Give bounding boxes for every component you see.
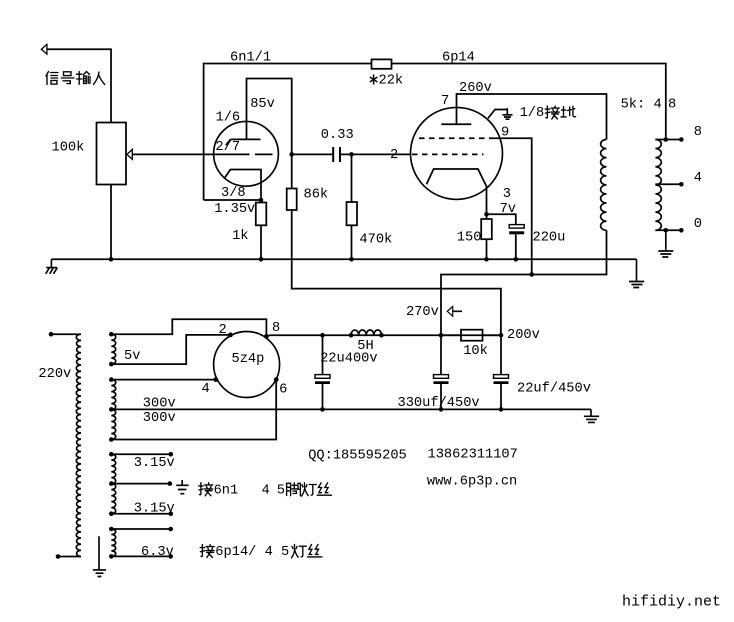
- svg-text:260v: 260v: [459, 81, 492, 96]
- svg-text:5z4p: 5z4p: [232, 352, 265, 367]
- power transformer heater winding 3.15v a: [111, 454, 115, 483]
- node 22u400v top: [320, 333, 325, 338]
- wire 6.3v bottom tap: [109, 554, 114, 559]
- wire 5v top tap to pin 8: [109, 332, 114, 337]
- capacitor 22u400v: [322, 335, 324, 374]
- svg-text:5: 5: [277, 483, 285, 498]
- svg-text:300v: 300v: [143, 411, 176, 426]
- svg-text:470k: 470k: [359, 233, 392, 248]
- svg-text:150: 150: [457, 230, 482, 245]
- wire feedback loop left vertical and bottom: [204, 64, 666, 201]
- capacitor 220u cathode bypass: [487, 214, 516, 224]
- resistor 150 cathode: [486, 214, 488, 219]
- label 1/8接地: [520, 106, 576, 121]
- pin 4 node and wire to hv top: [213, 377, 218, 382]
- ground chassis symbol left: [46, 259, 58, 274]
- wire V1 plate to 86k/0.33 junction: [247, 79, 292, 189]
- node 270v junction: [439, 333, 444, 338]
- node 150/ground: [484, 257, 489, 262]
- power transformer primary terminal bottom: [56, 554, 61, 559]
- svg-text:6n1/1: 6n1/1: [230, 51, 271, 66]
- svg-text:0: 0: [694, 217, 702, 232]
- output transformer secondary coil: [655, 140, 661, 231]
- wire heater 3.15v b bottom tap: [109, 511, 114, 516]
- svg-text:22k: 22k: [379, 74, 404, 89]
- tube V1 plate: [226, 139, 261, 145]
- resistor *22k (feedback): [372, 59, 392, 68]
- power transformer primary terminal top: [49, 332, 54, 337]
- power transformer hv winding 300-0-300: [111, 380, 115, 440]
- svg-text:10k: 10k: [463, 344, 488, 359]
- svg-text:3.15v: 3.15v: [134, 501, 175, 516]
- svg-text:2/7: 2/7: [215, 140, 240, 155]
- resistor 86k (V1 plate load): [287, 189, 297, 211]
- wire pot bottom to ground bus: [110, 185, 112, 260]
- node plate/86k/0.33 junction: [289, 152, 294, 157]
- wire screen grid to B+ line: [494, 138, 532, 274]
- svg-text:2: 2: [390, 148, 398, 163]
- wire 86k bottom to 200v node: [292, 210, 501, 335]
- svg-text:22uf/450v: 22uf/450v: [517, 381, 591, 396]
- node 470k/ground: [349, 257, 354, 262]
- svg-text:4: 4: [202, 382, 210, 397]
- ground symbol transformer core: [93, 536, 106, 576]
- svg-text:85v: 85v: [250, 97, 275, 112]
- svg-text:1.35v: 1.35v: [214, 202, 255, 217]
- svg-text:8: 8: [694, 125, 702, 140]
- input terminal arrow: [41, 44, 47, 54]
- tube V2 screen grid (dashed): [419, 137, 494, 139]
- label 信号输入 (signal input): [46, 72, 105, 85]
- svg-text:6p14/ 4 5: 6p14/ 4 5: [215, 545, 289, 560]
- svg-text:2: 2: [219, 323, 227, 338]
- node 1k/ground: [259, 257, 264, 262]
- wire 6.3v top tap: [109, 527, 114, 532]
- svg-text:4: 4: [262, 483, 270, 498]
- ground symbol secondary 0 tap: [658, 230, 673, 257]
- wire 5v bottom tap to pin 2: [109, 362, 114, 367]
- svg-text:0.33: 0.33: [321, 128, 354, 143]
- svg-text:6: 6: [279, 382, 287, 397]
- svg-text:3/8: 3/8: [221, 186, 246, 201]
- svg-text:1k: 1k: [232, 229, 248, 244]
- wire B+ rail pin8 to 200v: [266, 335, 501, 336]
- tube V2 control grid (dashed): [412, 153, 484, 155]
- node screen/B+ junction: [529, 272, 534, 277]
- label 接6n1 4 5脚灯丝: [199, 483, 332, 499]
- wire heater center tap: [109, 481, 114, 486]
- pin 2 node: [228, 333, 233, 338]
- svg-text:QQ:185595205: QQ:185595205: [308, 448, 407, 463]
- svg-text:9: 9: [501, 126, 509, 141]
- capacitor 330uf/450v: [440, 335, 442, 374]
- node pot/ground junction: [109, 257, 114, 262]
- svg-text:220u: 220u: [533, 230, 566, 245]
- power transformer heater winding 6.3v: [111, 529, 115, 556]
- tube V2 plate: [441, 123, 471, 125]
- ground symbol heater center tap: [176, 480, 188, 494]
- svg-text:5k: 4: 5k: 4: [621, 98, 662, 113]
- svg-text:22u400v: 22u400v: [320, 351, 378, 366]
- svg-text:8: 8: [668, 98, 676, 113]
- wire ground bus: [51, 258, 636, 260]
- tube V1 cathode: [224, 170, 261, 201]
- svg-text:86k: 86k: [304, 188, 329, 203]
- svg-text:270v: 270v: [406, 305, 439, 320]
- svg-text:6n1: 6n1: [214, 483, 239, 498]
- wire secondary tap 4: [655, 183, 681, 185]
- tube V1 6n1 envelope: [214, 121, 279, 186]
- tube V3 5z4p envelope: [214, 332, 280, 398]
- resistor 470k grid leak: [351, 154, 353, 202]
- resistor 10k: [461, 330, 483, 341]
- wire B+ 270v line to OT primary bottom: [441, 230, 607, 335]
- svg-text:hifidiy.net: hifidiy.net: [622, 594, 721, 611]
- inductor 5H choke: [351, 330, 382, 335]
- node 220u/ground: [514, 257, 519, 262]
- wire junction to 0.33 cap: [292, 153, 333, 155]
- wire grid line from pot to V1: [132, 153, 272, 155]
- label 接6p14/ 4 5灯丝: [200, 545, 322, 561]
- svg-text:6.3v: 6.3v: [141, 545, 174, 560]
- arrow 270v pointer: [447, 307, 462, 317]
- wire heater 3.15v a top tap: [109, 452, 114, 457]
- pin 8 node: [264, 334, 269, 339]
- ground symbol psu: [584, 409, 599, 422]
- node 0.33/470k junction: [349, 152, 354, 157]
- wire secondary tap 0: [655, 229, 681, 231]
- wire 0.33 to V2 grid: [341, 153, 411, 155]
- svg-text:100k: 100k: [52, 141, 85, 156]
- power transformer 5v winding: [111, 334, 115, 364]
- power transformer heater winding 3.15v b: [111, 484, 115, 514]
- ground symbol 1/8 pins: [488, 108, 513, 119]
- svg-text:7: 7: [441, 94, 449, 109]
- pin 6 node and wire to hv bottom: [274, 377, 279, 382]
- label *22k: [370, 74, 403, 89]
- node 200v junction: [499, 333, 504, 338]
- wire secondary tap 8: [655, 139, 681, 141]
- node V2 cathode junction: [484, 212, 489, 217]
- power transformer primary coil 220v: [76, 334, 81, 556]
- svg-text:3: 3: [503, 187, 511, 202]
- wire input to pot top: [47, 49, 111, 122]
- resistor 1k cathode: [256, 203, 266, 226]
- svg-text:220v: 220v: [38, 367, 71, 382]
- svg-text:6p14: 6p14: [442, 51, 475, 66]
- svg-text:13862311107: 13862311107: [428, 448, 518, 463]
- node feedback/cathode junction: [259, 198, 264, 203]
- wire hv center tap / psu ground rail: [109, 407, 114, 412]
- svg-text:1/8: 1/8: [520, 106, 545, 121]
- svg-text:330uf/450v: 330uf/450v: [398, 396, 480, 411]
- svg-text:4: 4: [694, 171, 702, 186]
- capacitor 22uf/450v: [500, 335, 502, 374]
- svg-text:5v: 5v: [124, 349, 140, 364]
- svg-text:200v: 200v: [507, 328, 540, 343]
- potentiometer wiper arrow: [127, 150, 132, 160]
- wire V2 plate to output transformer primary: [457, 94, 607, 140]
- wire 1k to ground bus: [260, 225, 262, 259]
- svg-text:8: 8: [272, 321, 280, 336]
- svg-text:3.15v: 3.15v: [134, 456, 175, 471]
- tube V2 cathode: [427, 169, 487, 214]
- svg-text:1/6: 1/6: [216, 111, 241, 126]
- ground symbol right of bus: [629, 259, 644, 287]
- tube V2 6p14 envelope: [411, 107, 503, 199]
- capacitor 0.33 coupling: [332, 147, 341, 162]
- output transformer primary coil: [601, 140, 607, 231]
- svg-text:www.6p3p.cn: www.6p3p.cn: [427, 474, 517, 489]
- potentiometer 100k body: [97, 123, 127, 185]
